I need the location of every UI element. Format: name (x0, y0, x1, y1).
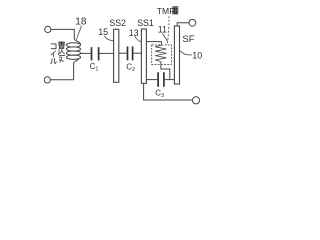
leader for 11 (163, 34, 168, 42)
leader for 15 (104, 36, 113, 41)
wire from T1 to coil top (51, 29, 74, 39)
svg-text:10: 10 (192, 51, 202, 61)
capacitor C1 (91, 47, 93, 60)
wire T2 to coil bottom (51, 79, 74, 81)
svg-text:C1: C1 (90, 62, 99, 73)
svg-text:11: 11 (158, 24, 167, 34)
terminal T2 (bottom-left) (44, 77, 50, 83)
capacitor C2 (127, 46, 129, 60)
terminal T3 (top-right) (189, 19, 196, 26)
terminal T1 (top-left) (45, 26, 51, 32)
wire C3 to SF (165, 79, 174, 81)
kana 'ru' glyph (column left, char 3) (51, 58, 57, 63)
capacitor C3 (157, 72, 159, 87)
resistor 11 (TMR element) (155, 45, 166, 61)
kana 'ko' glyph (column left, char 1) (51, 44, 56, 49)
TMR dashed box (152, 45, 172, 65)
kanji 'in/komi' glyph (column right, char 2) (58, 49, 64, 55)
leader for 10 (180, 51, 192, 56)
svg-text:C2: C2 (126, 62, 135, 73)
wire SS1 to C3 (146, 79, 157, 81)
leader for 13 (135, 36, 142, 42)
leader for 18 (76, 26, 81, 41)
svg-text:13: 13 (129, 28, 139, 38)
svg-text:SF: SF (182, 34, 194, 45)
svg-text:18: 18 (75, 17, 87, 28)
terminal T4 (bottom-right) (192, 97, 199, 104)
wire SF top to T3 (177, 23, 189, 26)
shield SS1 bar (141, 29, 146, 83)
wire C2 to SS1 (133, 52, 141, 54)
svg-text:SS1: SS1 (137, 18, 154, 28)
leader for TMR layer (dashed) (167, 16, 169, 43)
kana 'mi' glyph (column right, char 3) (59, 57, 64, 62)
wire coil to C1 (81, 52, 91, 54)
svg-text:C3: C3 (155, 89, 164, 100)
svg-text:15: 15 (98, 27, 108, 37)
kana 'i' glyph (column left, char 2) (51, 51, 55, 57)
coil bottom lead (74, 59, 79, 80)
shield SS2 bar (114, 29, 119, 82)
wire SS1 to TMR resistor top (146, 42, 161, 46)
kanji layer glyph of TMR label (173, 7, 178, 14)
wire SS2 to C2 (119, 52, 127, 54)
wire C1 to SS2 (100, 52, 114, 54)
wire SS1 bottom to T4 (144, 83, 193, 100)
shield SF bar (174, 26, 179, 84)
coil 18 (write coil) (74, 39, 80, 44)
svg-text:SS2: SS2 (109, 18, 126, 28)
resistor bottom lead to C3/SF wire (161, 62, 170, 80)
kanji 'write' glyph (column right, char 1) (58, 41, 65, 48)
